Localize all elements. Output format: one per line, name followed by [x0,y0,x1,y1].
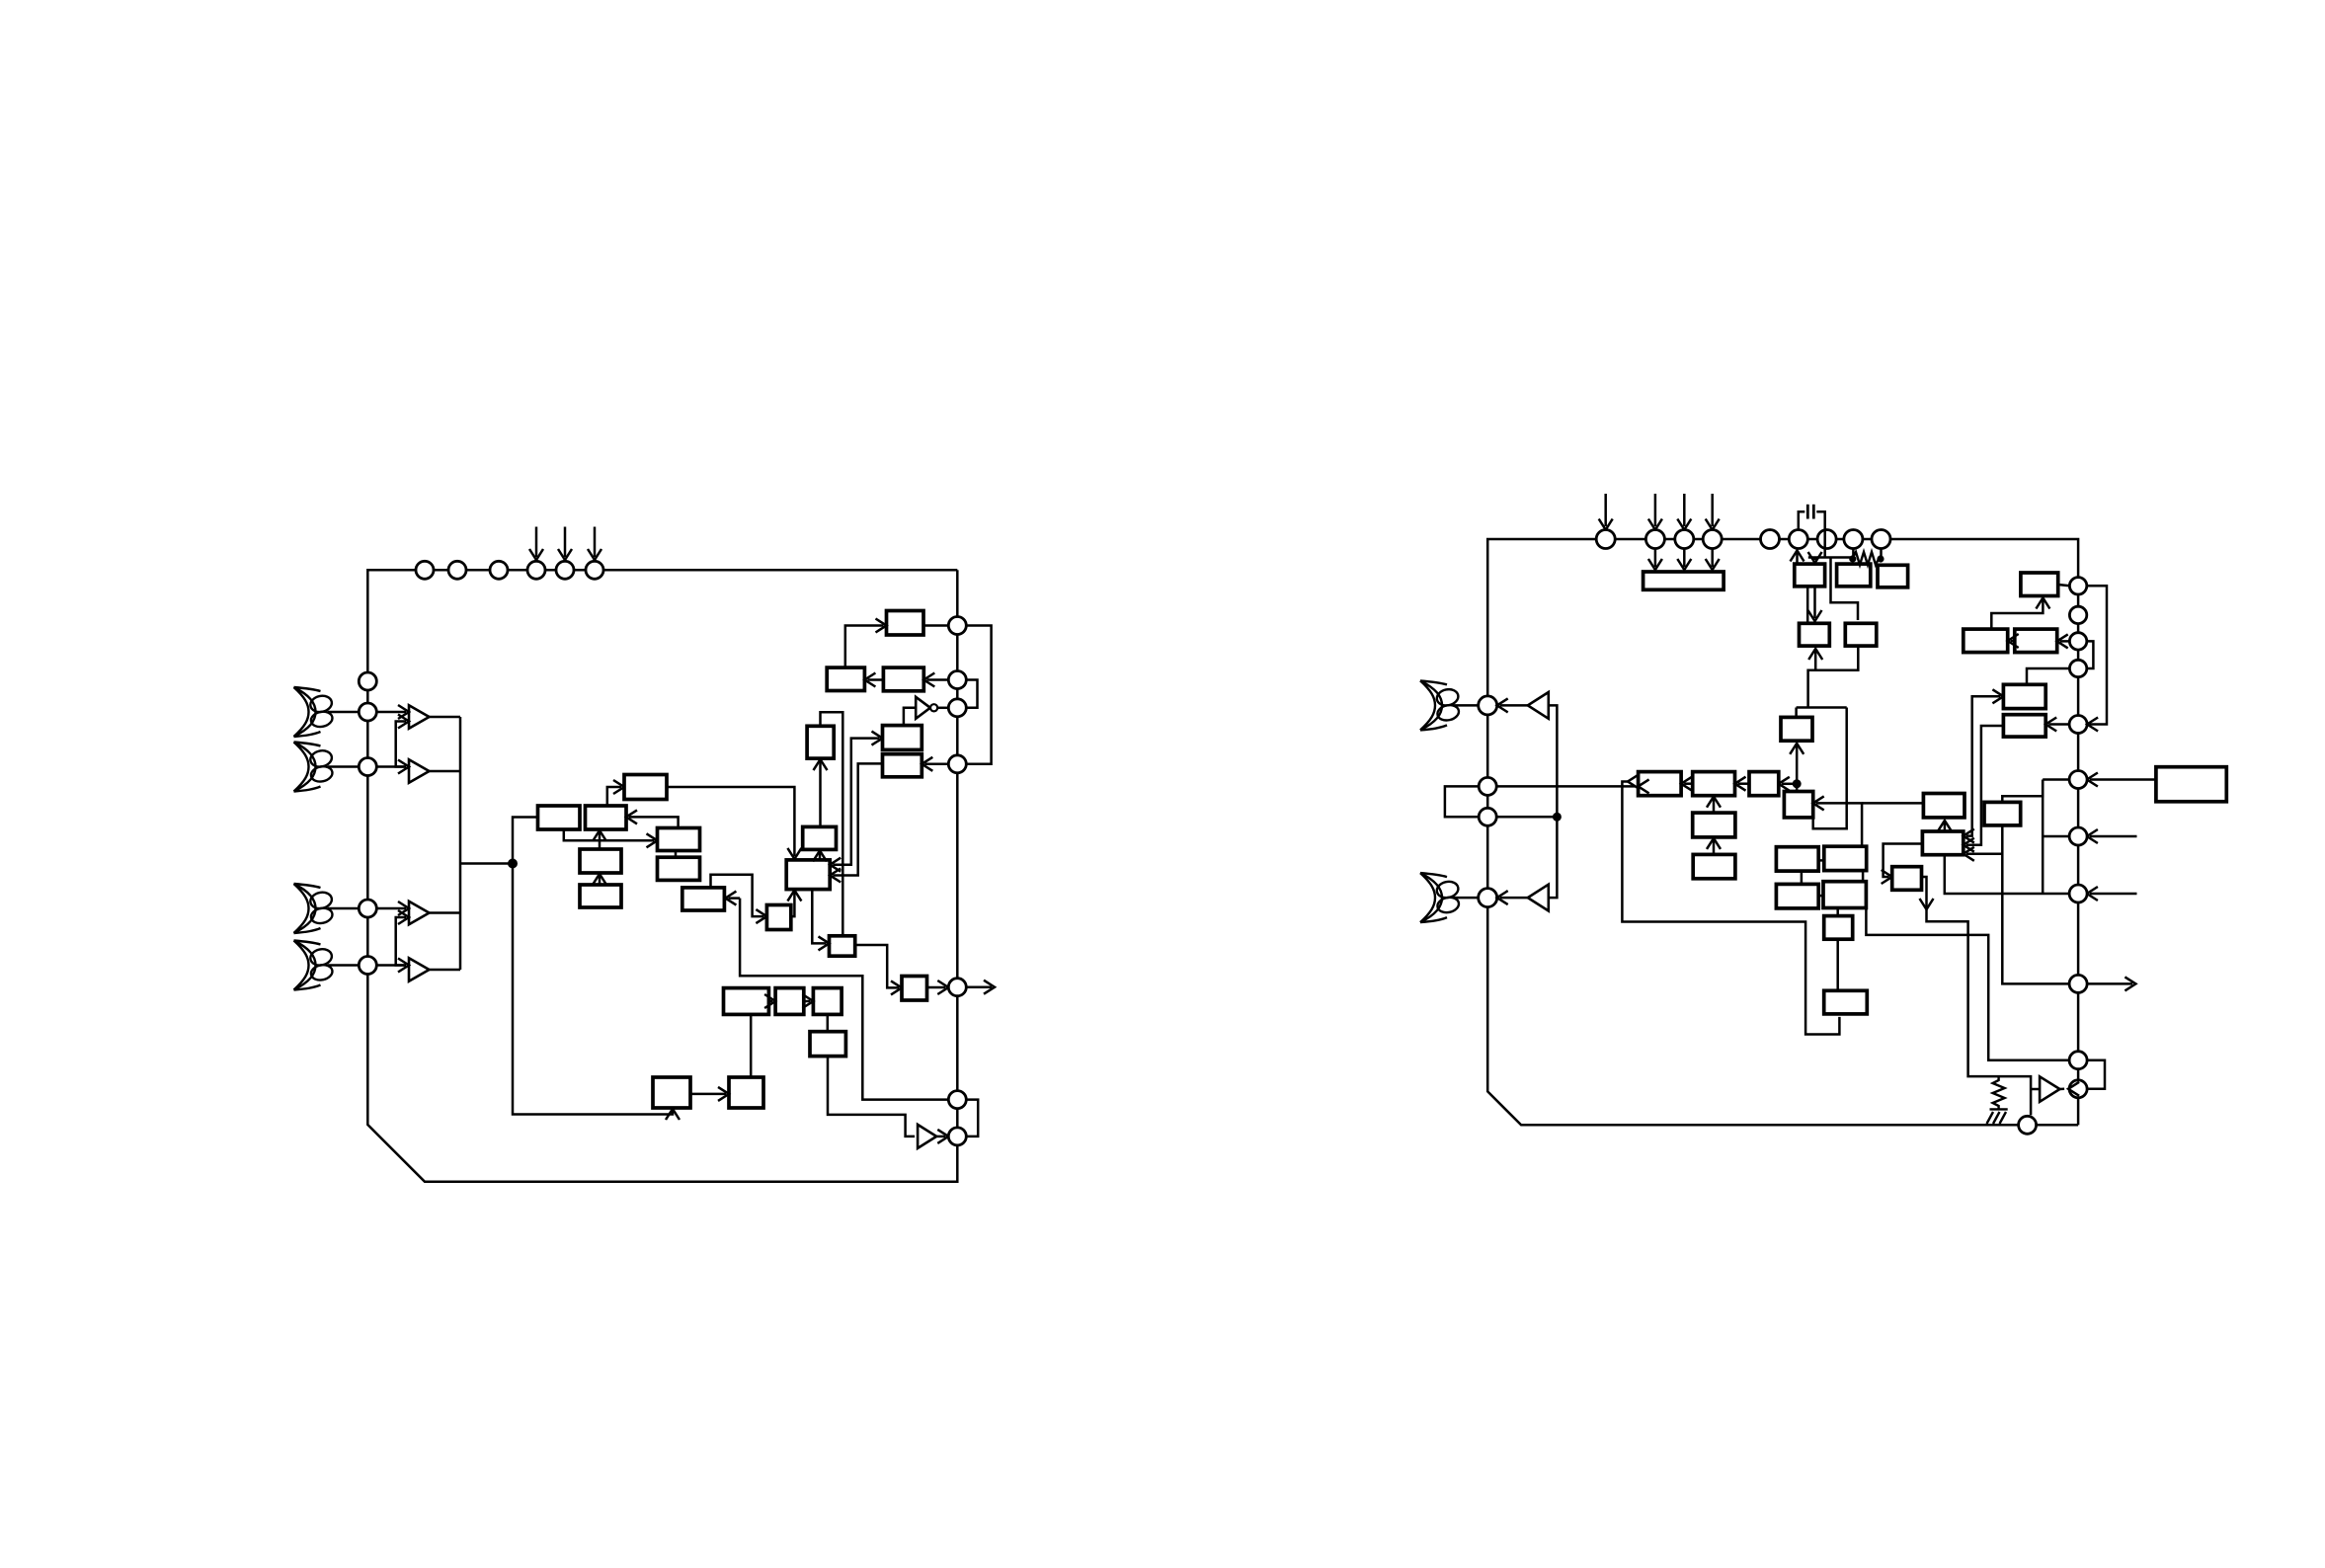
wire pin D1 loop to D5 [2087,586,2107,724]
arrowhead onto pin Q2 [1648,519,1662,530]
arrow into pin D8 right [2087,887,2098,901]
pin Q3 on right-diagram top rail [1675,530,1694,549]
pin for transducer X2 [359,758,376,776]
arrow into B15 left [876,619,887,633]
wire U3 to pin D11 [2060,1088,2065,1091]
transducer X1 (left diagram) [294,687,334,737]
wire E3 to E2 [2011,640,2015,643]
arrow into B19b left [802,994,813,1008]
arrow into R-C top [1808,610,1822,621]
wire cap right leg [1816,511,1824,557]
arrow into B3 bottom [593,874,606,885]
block R-D [1845,623,1877,646]
wire output arrow D9 [2087,982,2132,985]
arrow into W2b bottom [1707,838,1721,849]
wire buffer output bus [459,717,462,970]
arrow into D-reg2 right [922,757,932,771]
wire right bus seg3 [956,689,959,699]
wire B3 to B2 [599,832,601,849]
buffer A6 (drives pin RD) [1528,885,1549,911]
wire Y1 to pin [1454,704,1479,707]
block B9 (small sq) [766,905,790,930]
inverter U2 [918,1125,936,1148]
block RW [1781,717,1812,741]
wire B4 to B3 [599,876,601,885]
wire X2-X4 connector [1862,871,1865,882]
wire E2 top to E1 bottom [1991,600,2043,630]
wire pin RC to buffer bus [1496,816,1557,819]
wire W2 to W1 [1684,782,1693,785]
wire WY to WX [1944,823,1947,831]
arrow into E4 left [1992,689,2003,703]
pin D8 [2069,885,2087,902]
wire pin X2 to buffer A2 [376,765,406,768]
pin Q8 on right-diagram top rail [1844,530,1863,549]
wire R-A bottom to R-C arrow stub [1813,587,1816,618]
wire W2b to W2 [1713,799,1716,813]
wire R-D bottom net [1808,646,1859,707]
wire pins RB-RC left loop [1445,786,1479,817]
arrow into B8 right [725,892,736,905]
wire left bus mid2 [366,776,369,901]
wire clock net to RW top [1795,708,1798,718]
wire right bus d4-d5 [2077,677,2080,716]
pin P10 [948,755,966,773]
block E2 [1964,629,2008,653]
pin for transducer X3 [359,900,376,917]
wire bracket to d9 / WY bottom [1945,855,2068,894]
resistor R2 (vertical zigzag) [1993,1076,2005,1109]
arrow into B17 right [923,673,934,687]
arrow into WY right a [1964,829,1974,843]
arrow into A4 upper input [398,959,409,973]
wire top rail seg4 [1694,538,1703,541]
wire pin X4 to buffer A4 [376,964,406,967]
wire top rail seg8 [1836,538,1844,541]
wire RW net down to W5 top [1796,784,1799,792]
transducer Y1 (right diagram) [1420,680,1460,730]
wire X2 top riser / WX feed [1816,803,1862,846]
arrow into WX bottom [1938,821,1952,831]
pin RE (bottom) [2019,1116,2037,1134]
arrowhead into H1 top 1 [1648,559,1662,570]
pin D2 [2069,606,2086,623]
arrow into B16 right [864,673,875,687]
arrow into B11 bottom [813,850,827,861]
arrow into B10 bottom [787,891,801,902]
block B14 (output stage) [902,977,927,1001]
wire output bus to junction [460,862,513,865]
wire Y2 to pin [1454,897,1479,900]
wire pin to H1 stem 1 [1654,549,1657,568]
arrow into R-C bottom [1808,649,1822,660]
arrow into pin XT2 [937,1130,948,1143]
arrow into WY right b [1964,838,1974,852]
wire E5 left net [1966,726,2004,845]
block X1 [1776,847,1818,871]
wire X5 to X6 [1836,939,1839,990]
wire top rail seg3 [1664,538,1674,541]
block E3 [2015,629,2057,653]
wire pin P7 loop to pin P10 [966,626,991,764]
wire pin Q9 stub to resistor R1 [1880,549,1883,560]
block X4 [1823,882,1866,908]
wire right bus d7-d8 [2077,845,2080,885]
wire top input arrow 2 [1654,494,1657,526]
arrow into E3 right [2057,634,2068,648]
arrow into D-reg1 left [872,732,883,745]
wire resistor node to R-D top [1831,558,1859,621]
wire stub into R-A top [1813,558,1816,561]
arrowhead into H1 top 2 [1677,559,1691,570]
pin D5 [2069,716,2087,734]
arrow into B10 top [787,848,801,859]
block W5 [1784,792,1812,818]
arrow mid staircase down [1920,899,1934,909]
arrow into W1 left b [1628,775,1639,789]
wire B10 bottom to B13 left [812,890,826,944]
wire right bus d8-d9 [2077,902,2080,975]
pin Q1 on right-diagram top rail [1596,530,1615,549]
wire X1-X2 connector [1818,859,1824,862]
wire right bus d5-d6 [2077,734,2080,771]
block W2c [1693,854,1735,878]
wire stub into pin D8 [2090,893,2137,896]
arrow into R-A top [1808,552,1822,563]
arrowhead onto pin Q3 [1677,519,1691,530]
wire staircase X6 to W1 [1622,782,1839,1035]
wire A3 output [430,911,461,914]
wire input arrow stem 3 [594,527,597,558]
pin Q5 on right-diagram top rail [1761,530,1780,549]
wire top rail to right bus [1890,539,2078,578]
wire left bus a [1486,715,1489,778]
wire top rail left diagram [367,570,957,672]
wire ENEW top to bracket [2002,780,2043,803]
capacitor C1 plate right [1812,505,1815,519]
pin D7 [2069,827,2087,845]
junction node at W3 tap [1793,779,1802,788]
pin P3 on top rail [490,561,508,579]
arrow into output pin [937,980,948,994]
block B20 (cal 1) [653,1077,690,1108]
junction node resistor R1 left [1849,555,1856,562]
wire right bus seg6 [956,996,959,1091]
wire RW bottom net [1796,745,1799,784]
wire pin X1 to buffer A1 [376,711,406,714]
wire A6 to pin RD [1500,897,1528,900]
pin D9 (output) [2069,975,2087,992]
wire junction down to block B20 arrow [513,864,673,1115]
block X6 [1824,990,1868,1014]
wire pin P10 to D-reg2 [924,763,948,766]
wire right bus d3-d4 [2077,650,2080,660]
buffer A4 [409,958,430,980]
block D-reg2 [883,754,922,777]
wire X1-X3 connector [1801,871,1804,884]
pin P9 [948,699,966,717]
block B3 (under B2) [580,849,621,873]
arrowhead into pin 2 [558,549,572,560]
wire pin P8 to B17 [926,678,948,681]
buffer A2 [409,759,430,782]
wire X1 to pin [328,711,359,714]
arrowhead into pin 1 [529,549,543,560]
wire pin D3 loop to D4 [2087,641,2094,668]
wire left bus c [1486,825,1489,888]
wire pin D5 to E5 [2048,723,2068,726]
wire bracket d7-d9 [2043,778,2068,781]
wire bracket vertical [2042,780,2044,895]
capacitor C1 plate left [1806,505,1809,519]
wire B19b bottom to B21 top [827,1014,830,1031]
wire pin D10 loop to D11 [2086,1060,2105,1089]
wire B14 to output pin [927,986,946,989]
block B19b (div chain 3) [813,988,842,1015]
arrow into B19 left [764,994,775,1008]
pin P2 on top rail [448,561,466,579]
wire WZ right staircase down [1922,877,2032,1115]
arrow into B12 bottom [814,759,828,770]
wire X3 to pin [328,907,359,910]
pin XT1 [948,1091,966,1109]
pin D1 [2069,578,2086,594]
wire bracket A1-A2 second inputs [396,722,406,767]
inverter U1 bubble [930,704,937,711]
wire left bus d + chamfer [1487,907,2018,1126]
pin Q4 on right-diagram top rail [1703,530,1722,549]
block B22 (cal 2) [729,1077,763,1108]
wire X3-X4 connector [1818,895,1823,898]
wire left bus mid3 [366,917,369,957]
wire B12 top bracket to B13 top [821,712,843,936]
block W1 [1639,772,1682,796]
wire stub into pin D7 [2090,835,2137,838]
wire bottom rail to d12 [2037,1124,2079,1127]
block B21 (osc) [810,1032,845,1057]
pin RB [1479,777,1496,795]
wire right bus d6-d7 [2077,789,2080,828]
wire clock net horizontal [1797,706,1847,709]
wire top rail seg2 [1615,538,1645,541]
wire right bus d10-d11 [2077,1069,2080,1080]
block B1 (filter) [538,806,581,829]
arrow into W1 right [1681,777,1692,791]
arrow into pin D6 right [2087,773,2098,787]
wire bracket to d8 [2043,835,2068,838]
wire R-A bottom to R-C left stub [1806,587,1809,624]
wire input arrow stem 2 [564,527,567,558]
block WY [1922,831,1963,855]
arrow into pin D7 right [2087,829,2098,843]
block X5 [1824,916,1853,940]
wire pin XT1 loop to XT2 [966,1100,978,1137]
wire B1 bottom to B6 [564,829,655,840]
arrow into block B20 bottom [666,1109,680,1120]
arrow into B9 left [756,909,766,923]
pin P4 on top rail [527,561,545,579]
wire B18 to B19 [768,1000,772,1003]
pin XT2 [948,1128,966,1145]
wire right bus seg7 [956,1109,959,1128]
arrow into pin Q6 [1791,551,1804,562]
arrow into RW bottom [1790,744,1804,754]
wire ENEW net tap to WY [1966,853,2003,856]
wire top rail seg7 [1807,538,1817,541]
pin RC [1479,808,1496,825]
wire R-A to pin Q6 stub [1796,553,1799,564]
pin for transducer X4 [359,957,376,975]
pin P7 [948,617,966,635]
wire right bus seg2 [956,635,959,671]
wire input arrow stem 1 [535,527,538,558]
pin on left bus (no input) [359,672,376,690]
wire B2 top to B5 [607,787,621,806]
wire right bus d2-d3 [2077,624,2080,633]
pin Q2 on right-diagram top rail [1645,530,1664,549]
block W3 [1749,772,1779,796]
block B7 (reg low) [658,857,700,880]
arrow into B14 left [891,980,902,994]
resistor R1 (horizontal zigzag) [1852,552,1881,565]
wire E1 to pin D1 [2058,585,2070,586]
wire E4 left net [1966,696,2001,835]
block B15 [887,611,924,636]
wire D-reg2 left net [833,763,882,875]
wire tap to W3 [1782,783,1797,786]
wire right bus seg1 [956,570,959,616]
wire left bus mid1 [366,721,369,758]
block W2b [1693,813,1735,837]
wire pin D3 to E3 [2060,640,2070,643]
wire A1 output [430,716,461,719]
wire left bus b [1486,795,1489,808]
block E6 (xtal) [2156,767,2226,802]
block E4 [2003,684,2045,708]
wire B15 right to pin [923,624,948,627]
wire B11 to B12 [819,762,822,827]
wire cap left leg [1799,511,1805,529]
block R-A [1795,564,1825,587]
wire W5 feed to WX left [1862,802,1923,805]
arrow into W2 right [1735,777,1746,791]
block B17 [883,667,923,691]
arrow into A3 upper input [398,902,409,915]
arrow into pin D11 left [2068,1082,2079,1096]
wire right bus d1-d2 [2077,594,2080,606]
block B11 (above B10) [803,826,837,849]
wire A5 to pin RA [1500,704,1528,707]
wire ENEW bottom net [2002,825,2068,984]
wire U2 to pin OUT2 [936,1136,945,1138]
wire U1 input from D-reg1 top [904,708,916,726]
pin D10 [2069,1052,2087,1069]
block W2 [1693,772,1735,796]
arrow into pin D5 right [2087,718,2098,732]
junction node resistor R1 right [1877,555,1884,562]
transducer X4 (left diagram) [294,941,334,990]
wire X4 right riser to pin D5 left [1866,908,2068,1060]
arrow into B2 right [626,810,637,823]
block B12 (counter) [807,726,834,758]
wire pin to H1 stem 2 [1683,549,1686,568]
block R-B2 [1878,565,1908,588]
arrow into B6 left [647,833,658,847]
wire output arrow OUT1 [966,985,992,988]
block ENEW [1984,802,2021,825]
arrow into W3 right [1779,777,1790,791]
arrow into B2 bottom [593,830,606,841]
wire pin Q8 stub to resistor node [1852,549,1855,560]
arrow into A1 upper input [398,705,409,719]
block B16 [827,667,864,690]
block B18 (div chain 1) [724,988,769,1015]
arrow into E1 bottom [2036,598,2049,609]
wire B13 right to B14 [855,945,899,987]
pin D3 [2069,633,2086,650]
wire left bus upper [366,690,369,703]
wire B9 right to B10 bottom [791,893,795,916]
arrow into A1 lower input [398,715,409,729]
wire X2 to pin [328,765,359,768]
block H1 (input latch) [1644,572,1724,589]
pin P8 [948,671,966,689]
wire B21 bottom to inverter U2 [828,1057,915,1137]
wire B20 to B22 [690,1093,726,1096]
buffer A3 [409,902,430,924]
junction node buffer bus [1553,813,1562,822]
transducer Y2 (right diagram) [1420,873,1460,922]
pin Q9 on right-diagram top rail [1872,530,1890,549]
block X2 [1824,846,1867,870]
wire right bus seg4 [956,717,959,755]
block E1 [2021,573,2058,596]
arrowhead into pin 3 [588,549,601,560]
arrow into WZ left [1882,870,1892,884]
pin for transducer X1 [359,703,376,721]
wire pin D4 to E4 top [2027,668,2069,684]
arrow into A3 lower input [398,910,409,924]
pin Q6 on right-diagram top rail [1789,530,1807,549]
wire right bus seg5 [956,773,959,979]
wire top rail right diagram [1487,539,1596,696]
wire top rail seg5 [1722,538,1760,541]
buffer A1 [409,705,430,728]
wire A4 output [430,969,461,972]
wire U1 bubble to pin P9 [937,707,948,710]
wire top input arrow 3 [1683,494,1686,526]
wire R-C bottom arrow stub [1814,651,1817,670]
wire top rail seg6 [1780,538,1790,541]
block WX [1923,794,1964,818]
transducer X2 (left diagram) [294,743,334,792]
arrow into E5 right [2045,718,2056,732]
arrowhead into H1 top 3 [1706,559,1720,570]
pin P1 on top rail [416,561,434,579]
wire right bus d9-d10 [2077,992,2080,1051]
wire W2c to W2b [1713,840,1716,855]
wire B2 right input [629,817,679,827]
block B19 (div chain 2) [775,988,804,1015]
pin P5 on top rail [556,561,574,579]
block B6 (reg high) [658,828,700,851]
pin D4 [2069,660,2086,676]
arrowhead output OUT1 [984,980,995,994]
wire U3 input stub [2031,1088,2040,1091]
pin D11 [2069,1080,2087,1098]
wire clock net to W5 elbow [1813,708,1847,829]
pin D6 [2069,771,2087,789]
